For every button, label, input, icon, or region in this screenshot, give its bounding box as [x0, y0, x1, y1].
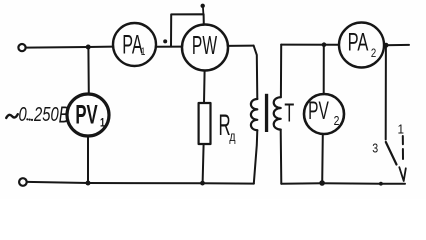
svg-text:3: 3: [372, 142, 378, 156]
wire PW top stub: [202, 8, 204, 14]
wire bottom-right: [281, 182, 405, 185]
wattmeter PW: [182, 25, 228, 71]
wire PA1 to PW: [156, 46, 182, 48]
switch blade: [386, 142, 397, 165]
wire PV1 bottom: [87, 136, 89, 183]
label source voltage: [6, 114, 18, 118]
wire PV1 top branch: [87, 47, 89, 94]
resistor Rd: [199, 103, 211, 144]
svg-text:1: 1: [398, 122, 405, 137]
svg-text:PV: PV: [75, 99, 97, 129]
svg-text:PV: PV: [308, 97, 329, 125]
wire Rd bottom: [203, 144, 204, 183]
svg-text:T: T: [284, 97, 294, 127]
wire PW bottom to Rd: [203, 71, 206, 103]
wire secondary top to PA2: [281, 44, 339, 46]
wire PV2 top branch: [323, 45, 325, 94]
node polarity dot PW current coil: [163, 39, 167, 43]
terminal top-left: [18, 44, 25, 51]
terminal bottom-left: [19, 178, 27, 186]
svg-text:1: 1: [141, 46, 146, 58]
transformer T primary coil: [251, 99, 257, 130]
wire switch vertical: [385, 45, 387, 139]
switch dashed travel line: [402, 136, 404, 159]
wire PV2 bottom: [321, 134, 324, 183]
wire secondary top vertical: [280, 45, 282, 98]
wire PA2 right stub: [384, 44, 409, 46]
svg-text:д: д: [229, 129, 235, 145]
svg-text:PA: PA: [122, 29, 143, 59]
svg-text:В: В: [59, 103, 70, 128]
voltmeter PV1: [67, 94, 109, 136]
wire top-left to PA1: [26, 47, 113, 48]
ammeter PA1: [113, 23, 156, 66]
node junction Rd bottom: [200, 181, 205, 186]
node junction PV2 top: [322, 42, 327, 47]
svg-text:PA: PA: [348, 29, 369, 56]
wire primary bottom vertical: [254, 130, 257, 183]
ammeter PA2: [339, 23, 384, 68]
node junction PV1 bottom: [86, 181, 91, 186]
switch arrow head: [399, 167, 406, 181]
transformer T secondary coil: [274, 97, 281, 129]
voltmeter PV2: [304, 94, 344, 134]
svg-text:1: 1: [100, 116, 105, 130]
svg-text:2: 2: [334, 114, 340, 128]
svg-text:PW: PW: [192, 31, 218, 60]
node polarity dot PW voltage coil: [201, 4, 205, 8]
svg-text:0: 0: [19, 103, 27, 126]
node junction switch bottom: [379, 182, 383, 186]
wire primary top vertical: [254, 46, 258, 99]
node junction PV2 bottom: [319, 180, 325, 186]
wire PW voltage-coil loop: [171, 14, 204, 46]
wire bottom-left: [27, 182, 254, 184]
transformer core: [265, 94, 268, 132]
node junction PV1 top: [86, 45, 91, 50]
node junction switch top: [384, 43, 389, 48]
svg-text:250: 250: [33, 103, 59, 126]
svg-text:2: 2: [371, 47, 376, 60]
wire secondary bottom vertical: [280, 130, 283, 184]
wire PW right to transformer primary: [228, 45, 254, 47]
